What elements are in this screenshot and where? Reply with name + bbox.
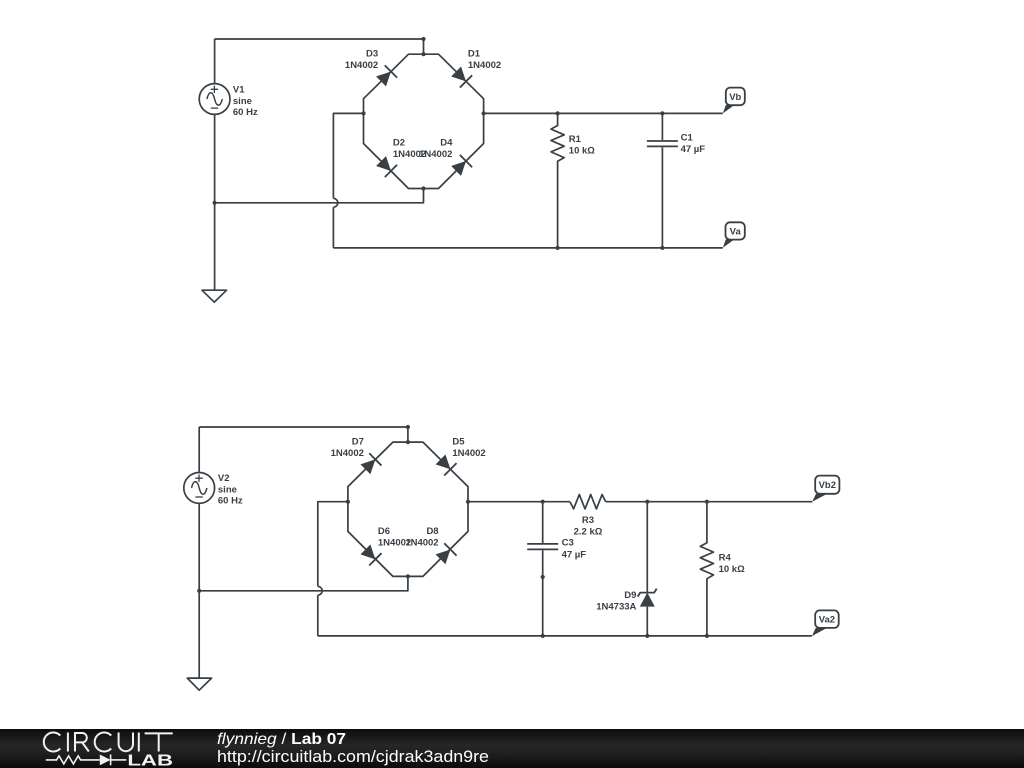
wire bridge2 right to R3: [468, 501, 570, 503]
label D5 1N4002: [452, 437, 485, 459]
wire hop over V2 return: [318, 586, 322, 595]
ground: [202, 290, 227, 302]
svg-text:sine: sine: [233, 96, 252, 107]
voltage source V2: [184, 473, 215, 504]
resistor R4: [700, 502, 713, 636]
wire V1 return to bridge bottom: [215, 189, 424, 203]
node C1 bottom: [660, 246, 664, 250]
svg-text:1N4002: 1N4002: [452, 448, 485, 459]
wire bottom rail to Va2: [318, 635, 812, 637]
node C3 mid joint: [541, 575, 545, 579]
svg-text:C3: C3: [562, 538, 574, 549]
svg-text:47 µF: 47 µF: [562, 549, 587, 560]
logo CIRCUIT: [44, 733, 173, 752]
node D9 bottom: [645, 634, 649, 638]
flag Va2: [812, 610, 839, 636]
resistor R3: [570, 495, 606, 509]
node V2 return junction: [197, 589, 201, 593]
label R3 2.2 kOhm: [574, 515, 603, 537]
svg-text:1N4002: 1N4002: [419, 149, 452, 160]
label D1 1N4002: [468, 49, 501, 71]
wire V1 bottom to ground: [214, 114, 216, 290]
label D7 1N4002: [331, 437, 364, 459]
logo resistor-diode squiggle: [46, 755, 127, 766]
bridge rectifier octagon (D1-D4): [364, 54, 484, 188]
node R1 top: [556, 111, 560, 115]
svg-text:10 kΩ: 10 kΩ: [569, 146, 595, 157]
diode D5: [434, 453, 456, 475]
node bridge2 top terminal: [406, 425, 410, 429]
svg-text:V1: V1: [233, 84, 245, 95]
zener diode D9: [638, 502, 657, 636]
voltage source V1: [199, 84, 230, 115]
wire V1 top lead: [214, 39, 216, 84]
diode D2: [375, 155, 397, 177]
svg-text:D7: D7: [352, 437, 364, 448]
node D9 top: [645, 500, 649, 504]
node bridge top terminal: [421, 37, 425, 41]
wire V2 bottom to ground: [198, 503, 200, 678]
svg-text:D5: D5: [452, 437, 465, 448]
node bridge bottom terminal: [421, 186, 425, 190]
wire V2 top to bridge: [199, 427, 408, 442]
node R4 bottom: [705, 634, 709, 638]
svg-text:C1: C1: [681, 133, 694, 144]
node R1 bottom: [556, 246, 560, 250]
wire V1 top to bridge: [215, 39, 424, 54]
wire vertical down to bottom rail: [332, 207, 334, 248]
node bridge2 bottom terminal: [406, 574, 410, 578]
label C3 47 uF: [562, 538, 587, 561]
flag Vb: [723, 88, 745, 114]
diode D7: [359, 453, 381, 475]
svg-text:R4: R4: [719, 552, 732, 563]
svg-text:Va2: Va2: [819, 615, 835, 626]
node bridge right terminal: [482, 111, 486, 115]
svg-text:1N4733A: 1N4733A: [596, 602, 636, 613]
wire hop over V1 return: [333, 198, 337, 207]
svg-text:D4: D4: [440, 138, 453, 149]
node V1 return junction: [213, 201, 217, 205]
svg-text:1N4002: 1N4002: [331, 448, 364, 459]
label C1 47 uF: [681, 133, 706, 155]
wire bridge left to vertical: [333, 113, 363, 198]
svg-text:47 µF: 47 µF: [681, 144, 706, 155]
svg-text:D1: D1: [468, 49, 481, 60]
diode D3: [375, 65, 397, 87]
node C1 top: [660, 111, 664, 115]
footer bar: [0, 729, 1024, 768]
svg-text:flynnieg / Lab 07: flynnieg / Lab 07: [217, 731, 346, 748]
node C3 bottom: [541, 634, 545, 638]
svg-text:D2: D2: [393, 138, 405, 149]
label R1 10 kOhm: [569, 134, 595, 156]
svg-text:D6: D6: [378, 526, 390, 537]
svg-text:R1: R1: [569, 134, 582, 145]
svg-text:R3: R3: [582, 515, 594, 526]
label V2 sine 60 Hz: [218, 473, 243, 507]
svg-text:LAB: LAB: [127, 752, 173, 768]
wire bridge right to Vb rail: [484, 112, 723, 114]
svg-text:Vb2: Vb2: [819, 480, 836, 491]
capacitor C3: [527, 502, 558, 636]
svg-text:2.2 kΩ: 2.2 kΩ: [574, 527, 603, 538]
svg-text:60 Hz: 60 Hz: [218, 496, 243, 507]
node bridge left terminal: [361, 111, 365, 115]
diode D8: [434, 543, 456, 565]
capacitor C1: [647, 113, 678, 248]
diode D4: [450, 155, 472, 177]
node C3 top: [541, 500, 545, 504]
label R4 10 kOhm: [719, 552, 745, 574]
svg-text:D8: D8: [426, 526, 438, 537]
svg-text:Vb: Vb: [729, 92, 741, 103]
node bridge2 left terminal: [346, 500, 350, 504]
svg-text:D3: D3: [366, 49, 378, 60]
wire vertical down to bottom rail 2: [317, 595, 319, 636]
flag Va: [723, 222, 745, 248]
svg-text:10 kΩ: 10 kΩ: [719, 564, 745, 575]
svg-text:Va: Va: [730, 226, 742, 237]
svg-text:60 Hz: 60 Hz: [233, 107, 258, 118]
node R4 top: [705, 500, 709, 504]
label D8 1N4002: [405, 526, 438, 548]
bridge rectifier octagon (D5-D8): [348, 442, 468, 576]
label V1 sine 60 Hz: [233, 84, 258, 118]
label D6 1N4002: [378, 526, 411, 548]
svg-text:sine: sine: [218, 484, 237, 495]
svg-text:1N4002: 1N4002: [468, 60, 501, 71]
svg-text:1N4002: 1N4002: [405, 538, 438, 549]
wire V2 top lead: [198, 427, 200, 473]
label D4 1N4002: [419, 138, 453, 160]
resistor R1: [551, 113, 564, 248]
flag Vb2: [812, 476, 839, 502]
wire bottom rail to Va: [333, 247, 722, 249]
wire R3 to Vb2 rail: [606, 501, 813, 503]
svg-text:http://circuitlab.com/cjdrak3a: http://circuitlab.com/cjdrak3adn9re: [217, 747, 489, 766]
svg-text:1N4002: 1N4002: [345, 60, 378, 71]
svg-text:V2: V2: [218, 473, 230, 484]
wire bridge2 left to vertical: [318, 502, 348, 587]
svg-text:D9: D9: [624, 590, 636, 601]
wire V2 return to bridge2 bottom: [199, 576, 408, 590]
ground 2: [187, 678, 211, 690]
label D3 1N4002: [345, 49, 378, 71]
diode D6: [359, 543, 381, 565]
label D2 1N4002: [393, 138, 426, 160]
node bridge2 right terminal: [466, 500, 470, 504]
label D9 1N4733A: [596, 590, 636, 612]
diode D1: [450, 65, 472, 87]
